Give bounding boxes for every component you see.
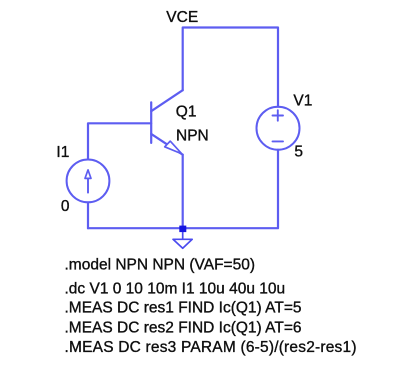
transistor Q1	[151, 90, 183, 155]
wire top from Q1 collector to V1	[183, 28, 278, 107]
wire I1 top to Q1 base	[88, 123, 151, 159]
wire I1 bottom	[87, 203, 89, 229]
svg-text:VCE: VCE	[166, 9, 198, 26]
ground	[173, 232, 192, 248]
voltage source V1	[257, 107, 300, 150]
svg-text:5: 5	[294, 144, 303, 161]
svg-text:.dc V1 0 10 10m I1 10u 40u 10u: .dc V1 0 10 10m I1 10u 40u 10u	[65, 281, 286, 298]
svg-text:Q1: Q1	[176, 103, 197, 120]
wire Q1 emitter to junction	[182, 155, 184, 229]
svg-text:.MEAS DC res3 PARAM (6-5)/(res: .MEAS DC res3 PARAM (6-5)/(res2-res1)	[65, 339, 357, 356]
svg-text:I1: I1	[56, 144, 69, 161]
svg-text:NPN: NPN	[176, 127, 209, 144]
wire V1 bottom to ground rail	[88, 150, 278, 229]
svg-text:0: 0	[61, 198, 70, 215]
svg-text:.MEAS DC res2 FIND Ic(Q1) AT=6: .MEAS DC res2 FIND Ic(Q1) AT=6	[65, 319, 302, 336]
svg-text:.MEAS DC res1 FIND Ic(Q1) AT=5: .MEAS DC res1 FIND Ic(Q1) AT=5	[65, 299, 302, 316]
svg-text:V1: V1	[293, 92, 312, 109]
svg-text:.model NPN NPN (VAF=50): .model NPN NPN (VAF=50)	[65, 257, 256, 274]
current source I1	[67, 160, 110, 203]
junction node	[179, 226, 186, 233]
